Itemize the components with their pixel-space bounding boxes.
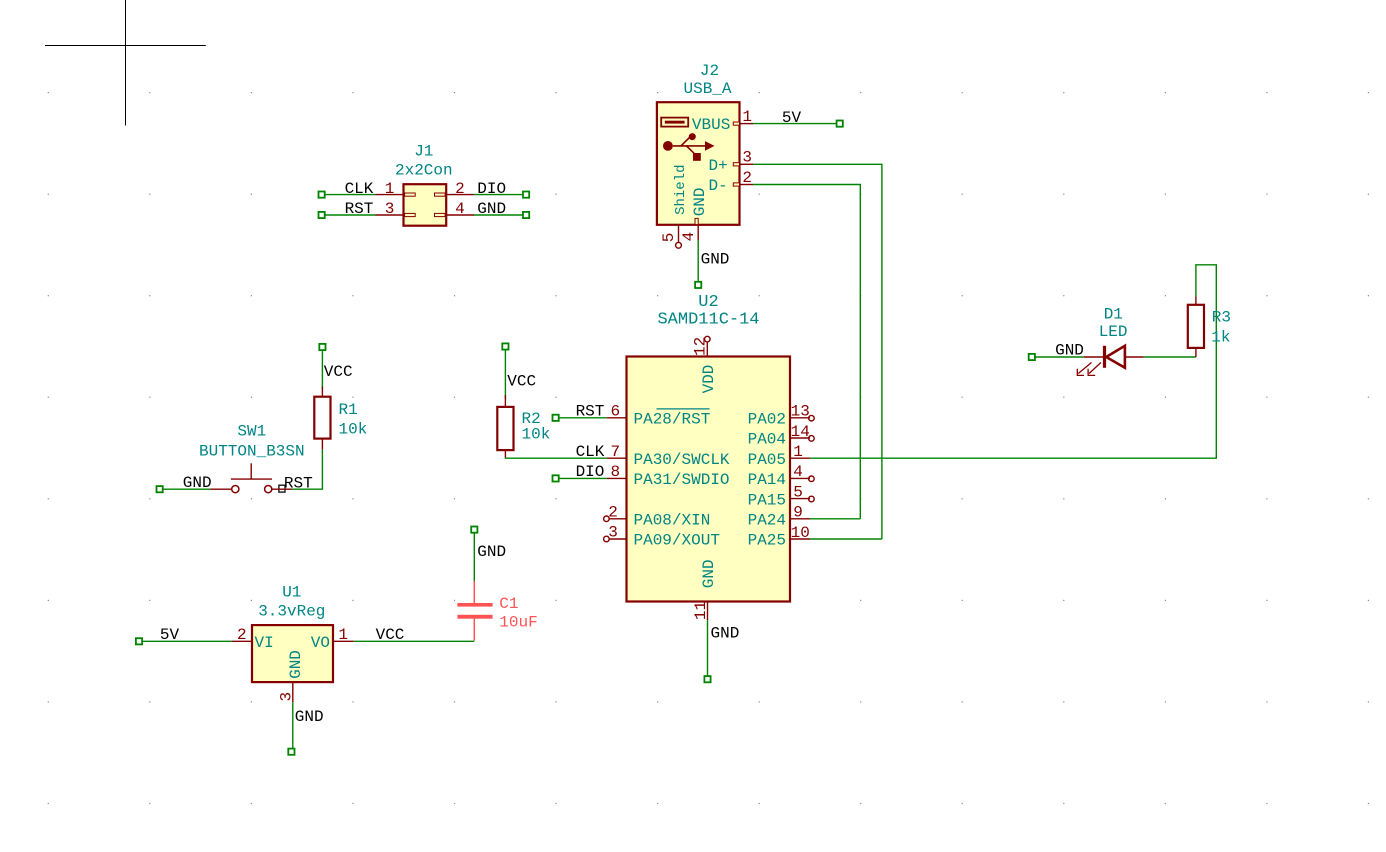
svg-text:PA31/SWDIO: PA31/SWDIO xyxy=(634,471,730,489)
R2 value 10k xyxy=(522,425,551,443)
U2 value SAMD11C-14 xyxy=(657,311,759,330)
svg-text:2: 2 xyxy=(455,180,465,198)
D1 reference D1 xyxy=(1104,305,1123,323)
label VCC at R2 xyxy=(507,372,536,390)
svg-text:2: 2 xyxy=(742,169,752,187)
wire 5V from J2 pin 1 xyxy=(753,121,843,127)
R1 value 10k xyxy=(339,420,368,438)
R3 reference R3 xyxy=(1212,309,1231,327)
svg-text:GND: GND xyxy=(701,250,730,268)
wire VCC to R1 xyxy=(319,344,325,390)
wire PA24 to D- net xyxy=(810,518,860,520)
SW1 reference SW1 xyxy=(237,423,266,441)
D1 value LED xyxy=(1099,323,1128,341)
wire R1 to SW1 xyxy=(292,450,323,490)
svg-text:RST: RST xyxy=(345,200,374,218)
U1 pin 1 VO xyxy=(311,626,354,652)
resistor R2 xyxy=(497,395,513,458)
svg-text:3: 3 xyxy=(742,149,752,167)
svg-text:PA30/SWCLK: PA30/SWCLK xyxy=(634,451,730,469)
J1 pin 4 xyxy=(446,200,474,218)
J2 pin 1 VBUS xyxy=(692,108,753,134)
svg-text:1: 1 xyxy=(338,626,348,644)
U2 pin 14 PA04 xyxy=(748,423,815,449)
U2 reference U2 xyxy=(698,293,718,312)
svg-text:1: 1 xyxy=(385,180,395,198)
label CLK xyxy=(345,180,374,198)
label GND at J2 xyxy=(701,250,730,268)
wire DIO from J1 pin 2 xyxy=(474,192,529,198)
label 5V xyxy=(782,109,802,127)
R3 value 1k xyxy=(1211,328,1230,346)
connector J2 body xyxy=(657,102,740,225)
svg-text:PA15: PA15 xyxy=(748,491,786,509)
svg-text:PA02: PA02 xyxy=(748,411,786,429)
svg-text:VCC: VCC xyxy=(324,363,353,381)
svg-text:GND: GND xyxy=(1055,341,1084,359)
svg-text:10: 10 xyxy=(791,524,810,542)
wire GND from J1 pin 4 xyxy=(474,212,529,218)
label DIO xyxy=(477,180,506,198)
C1 value 10uF xyxy=(499,614,537,632)
svg-text:PA28/RST: PA28/RST xyxy=(634,410,711,428)
svg-text:PA24: PA24 xyxy=(748,512,786,530)
J1 pin 3 xyxy=(376,200,404,218)
svg-text:GND: GND xyxy=(700,559,718,588)
svg-text:5V: 5V xyxy=(782,109,802,127)
U2 pin 4 PA14 xyxy=(748,463,815,489)
wire CLK to J1 pin 1 xyxy=(319,192,376,198)
svg-text:4: 4 xyxy=(793,463,803,481)
U2 pin 5 PA15 xyxy=(748,483,815,509)
wire D+ net xyxy=(753,164,882,539)
SW1 value BUTTON_B3SN xyxy=(199,443,305,461)
svg-text:VCC: VCC xyxy=(376,626,405,644)
J1 pin 2 xyxy=(446,180,474,198)
IC U2 body xyxy=(627,357,791,602)
svg-text:11: 11 xyxy=(692,601,710,620)
J2 pin name GND xyxy=(691,187,709,216)
label VCC at U1 xyxy=(376,626,405,644)
svg-text:PA14: PA14 xyxy=(748,471,786,489)
svg-text:5: 5 xyxy=(660,233,678,243)
svg-text:1: 1 xyxy=(742,108,752,126)
svg-text:3: 3 xyxy=(278,692,296,702)
svg-text:CLK: CLK xyxy=(576,443,605,461)
label 5V at U1 xyxy=(160,626,180,644)
wire CLK net R2 to U2 pin 7 xyxy=(505,457,607,460)
J2 pin 3 D+ xyxy=(709,149,754,175)
LED D1 xyxy=(1077,346,1144,376)
svg-text:10k: 10k xyxy=(339,420,368,438)
wire GND to D1 xyxy=(1029,354,1084,360)
wire GND from U1 pin 3 xyxy=(288,702,294,755)
J2 pin name Shield xyxy=(673,164,689,214)
J1 pin 1 xyxy=(376,180,404,198)
svg-text:8: 8 xyxy=(610,463,620,481)
J2 reference J2 xyxy=(700,62,719,80)
J2 pin 2 D- xyxy=(709,169,754,195)
U1 reference U1 xyxy=(282,583,301,601)
R1 reference R1 xyxy=(339,401,358,419)
label GND at U2 pin 11 xyxy=(711,624,740,642)
svg-text:VO: VO xyxy=(311,634,330,652)
svg-text:1k: 1k xyxy=(1211,328,1230,346)
wire PA25 to D+ net xyxy=(810,538,882,540)
U2 pin 9 PA24 xyxy=(748,504,810,530)
svg-text:U1: U1 xyxy=(282,583,301,601)
wire GND from J2 pin 4 xyxy=(695,240,701,288)
svg-text:GND: GND xyxy=(183,474,212,492)
wire VCC net U1 to C1 xyxy=(354,640,475,642)
J2 pin 5 Shield xyxy=(660,225,681,248)
U2 pin 7 PA30/SWCLK xyxy=(607,443,730,469)
C1 reference C1 xyxy=(499,595,518,613)
U2 pin 13 PA02 xyxy=(748,403,815,429)
svg-text:3.3vReg: 3.3vReg xyxy=(258,602,325,620)
svg-text:GND: GND xyxy=(711,624,740,642)
svg-text:Shield: Shield xyxy=(673,164,689,214)
svg-text:10uF: 10uF xyxy=(499,614,537,632)
label GND at U1 pin 3 xyxy=(295,708,324,726)
U2 pin 8 PA31/SWDIO xyxy=(607,463,730,489)
svg-text:VBUS: VBUS xyxy=(692,116,730,134)
svg-text:J2: J2 xyxy=(700,62,719,80)
U1 pin 3 GND xyxy=(278,650,306,702)
label GND at SW1 xyxy=(183,474,212,492)
svg-text:7: 7 xyxy=(610,443,620,461)
svg-text:4: 4 xyxy=(680,232,698,242)
J2 USB trident icon xyxy=(663,133,715,161)
U1 pin 2 VI xyxy=(232,626,274,652)
wire PA05 net to R3 xyxy=(810,265,1216,458)
svg-text:9: 9 xyxy=(793,504,803,522)
svg-text:DIO: DIO xyxy=(477,180,506,198)
svg-text:2: 2 xyxy=(237,626,247,644)
J2 USB port icon xyxy=(661,118,688,127)
svg-text:R1: R1 xyxy=(339,401,358,419)
J1 value 2x2Con xyxy=(395,162,453,180)
svg-text:5V: 5V xyxy=(160,626,180,644)
svg-text:PA25: PA25 xyxy=(748,532,786,550)
label GND xyxy=(477,200,506,218)
switch SW1 xyxy=(210,463,292,492)
svg-text:10k: 10k xyxy=(522,425,551,443)
U2 pin 6 PA28/~RST xyxy=(607,403,710,429)
svg-text:SAMD11C-14: SAMD11C-14 xyxy=(657,311,759,330)
wire GND to SW1 xyxy=(157,486,211,492)
wire GND to C1 xyxy=(471,527,477,582)
U2 pin 11 GND xyxy=(692,559,718,620)
resistor R1 xyxy=(314,386,330,449)
svg-text:J1: J1 xyxy=(414,143,433,161)
svg-text:2: 2 xyxy=(608,504,618,522)
svg-text:PA08/XIN: PA08/XIN xyxy=(634,511,711,529)
svg-text:2x2Con: 2x2Con xyxy=(395,162,453,180)
U2 pin 12 VDD xyxy=(692,336,718,393)
wire GND from U2 pin 11 xyxy=(704,620,710,682)
svg-text:PA09/XOUT: PA09/XOUT xyxy=(634,532,720,550)
svg-text:5: 5 xyxy=(793,483,803,501)
U2 pin 3 PA09/XOUT xyxy=(604,524,720,550)
svg-text:U2: U2 xyxy=(698,293,718,312)
J1 socket notches xyxy=(405,193,446,217)
R2 reference R2 xyxy=(522,410,541,428)
svg-text:GND: GND xyxy=(477,200,506,218)
svg-text:BUTTON_B3SN: BUTTON_B3SN xyxy=(199,443,305,461)
svg-text:D+: D+ xyxy=(709,157,728,175)
wire RST to J1 pin 3 xyxy=(319,212,376,218)
label GND at C1 xyxy=(477,543,506,561)
connector J1 body xyxy=(404,184,447,226)
svg-text:GND: GND xyxy=(295,708,324,726)
wire RST to U2 pin 6 xyxy=(553,415,607,421)
J2 value USB_A xyxy=(683,80,731,98)
wire 5V to U1 pin 2 xyxy=(136,638,232,644)
svg-text:GND: GND xyxy=(691,187,709,216)
wire DIO to U2 pin 8 xyxy=(553,475,607,481)
svg-text:1: 1 xyxy=(793,443,803,461)
svg-text:6: 6 xyxy=(610,403,620,421)
label RST at SW1 xyxy=(279,474,313,492)
label RST at U2 xyxy=(576,403,605,421)
label CLK at U2 xyxy=(576,443,605,461)
resistor R3 xyxy=(1188,297,1204,358)
svg-text:RST: RST xyxy=(576,403,605,421)
svg-text:GND: GND xyxy=(477,543,506,561)
label GND at D1 xyxy=(1055,341,1084,359)
wire VCC to R2 xyxy=(502,343,508,398)
svg-text:3: 3 xyxy=(608,524,618,542)
label VCC at R1 xyxy=(324,363,353,381)
label DIO at U2 xyxy=(576,463,605,481)
U2 pin 10 PA25 xyxy=(748,524,810,550)
svg-text:LED: LED xyxy=(1099,323,1128,341)
svg-text:14: 14 xyxy=(791,423,810,441)
svg-text:USB_A: USB_A xyxy=(683,80,731,98)
svg-text:VI: VI xyxy=(255,634,274,652)
svg-text:VCC: VCC xyxy=(507,372,536,390)
svg-text:4: 4 xyxy=(455,200,465,218)
label RST xyxy=(345,200,374,218)
svg-text:VDD: VDD xyxy=(700,365,718,394)
J2 pin 4 GND xyxy=(680,218,698,241)
wire D1 to R3 xyxy=(1144,356,1196,358)
svg-text:C1: C1 xyxy=(499,595,518,613)
svg-text:12: 12 xyxy=(692,337,710,356)
svg-text:D1: D1 xyxy=(1104,305,1123,323)
U1 value 3.3vReg xyxy=(258,602,325,620)
svg-text:PA05: PA05 xyxy=(748,451,786,469)
J1 reference J1 xyxy=(414,143,433,161)
svg-text:R3: R3 xyxy=(1212,309,1231,327)
svg-text:3: 3 xyxy=(385,200,395,218)
svg-text:CLK: CLK xyxy=(345,180,374,198)
U2 pin 1 PA05 xyxy=(748,443,810,469)
svg-text:GND: GND xyxy=(287,650,305,679)
U2 pin 2 PA08/XIN xyxy=(604,504,711,530)
capacitor C1 xyxy=(457,581,492,641)
wire D- net xyxy=(753,185,860,519)
svg-text:PA04: PA04 xyxy=(748,431,786,449)
svg-text:SW1: SW1 xyxy=(237,423,266,441)
svg-text:DIO: DIO xyxy=(576,463,605,481)
svg-text:D-: D- xyxy=(709,177,728,195)
svg-text:13: 13 xyxy=(791,403,810,421)
regulator U1 body xyxy=(252,625,333,682)
